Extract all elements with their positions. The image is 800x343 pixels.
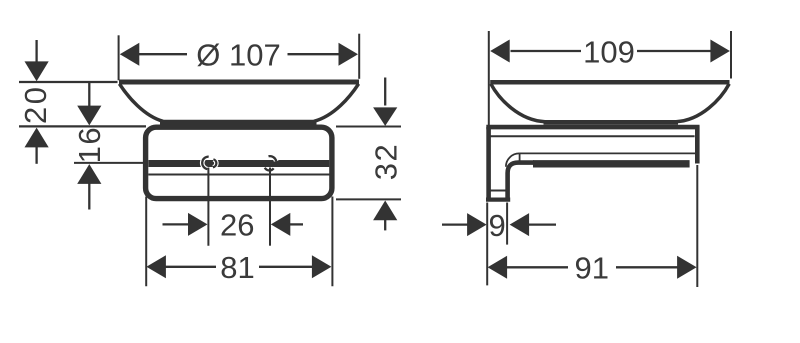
shelf plate bottom thin line	[490, 135, 695, 137]
dimension 20 bottom arrow	[25, 128, 49, 148]
svg-text:26: 26	[220, 208, 254, 243]
wall plate foot connector	[487, 190, 510, 192]
svg-text:81: 81	[220, 250, 254, 285]
dish bowl right curve	[676, 84, 729, 122]
dimension D107 extension line left	[118, 35, 120, 80]
holder inner thin line	[148, 174, 329, 176]
bracket edge line A (left)	[207, 168, 209, 246]
holder inner shelf thick bar	[149, 160, 330, 167]
dimension 109 extension line right	[730, 31, 732, 79]
break-arc symbol at node A	[202, 157, 216, 170]
svg-text:32: 32	[369, 143, 404, 180]
svg-text:109: 109	[583, 34, 635, 69]
holder body rounded rect	[146, 127, 332, 198]
svg-text:20: 20	[18, 85, 53, 124]
dimension 109 arrows and line	[490, 40, 510, 63]
bracket corner tick	[519, 153, 521, 160]
dish top rim line	[490, 80, 729, 85]
wall plate left edge	[486, 127, 491, 202]
dish top rim line	[119, 80, 359, 85]
dimension 32 reference line top	[336, 126, 401, 128]
dimension 9 extension line right	[506, 203, 508, 245]
dimension 16 bottom arrow	[77, 164, 101, 184]
dimension 81 extension line right	[331, 197, 333, 287]
dimension 32 bottom arrow	[373, 201, 397, 221]
dish bowl right curve	[314, 84, 359, 122]
dimension D107 extension line right	[358, 34, 360, 79]
dish bowl flat bottom	[160, 120, 317, 125]
shelf right edge	[695, 126, 700, 164]
dish bowl left curve	[491, 84, 545, 122]
dish bowl left curve	[119, 84, 163, 122]
bracket edge line B (right)	[269, 168, 271, 246]
dimension 9 extension line left	[486, 203, 488, 286]
bracket underside thin top line	[520, 152, 695, 154]
dimension D107 arrow right	[339, 43, 359, 66]
dimension 32 top arrow	[384, 78, 386, 106]
dimension 91 arrows and line	[488, 256, 508, 279]
dimension D107 line segments	[139, 53, 340, 55]
dimension 91 extension line right	[696, 165, 698, 287]
dimension 32 reference line bottom	[336, 198, 401, 200]
dimension 16 reference line (shelf)	[74, 162, 144, 164]
svg-text:16: 16	[72, 126, 107, 163]
dimension 20 top arrow	[35, 40, 37, 62]
bracket underside thick bar	[533, 160, 690, 167]
dimension 26 line and arrows	[163, 223, 190, 225]
dimension 81 extension line left	[145, 197, 147, 287]
break-arc symbol at node B	[265, 156, 276, 170]
dimension 109 extension line left	[488, 31, 490, 127]
dimension 20 reference line (dish top)	[19, 81, 118, 83]
svg-text:91: 91	[575, 251, 609, 286]
bracket outer fillet arc	[506, 153, 520, 166]
svg-text:9: 9	[488, 208, 505, 243]
svg-text:Ø 107: Ø 107	[196, 38, 280, 73]
shelf plate top line	[486, 125, 699, 130]
dimension D107 arrow left	[120, 43, 140, 66]
bracket inner vertical with fillet	[508, 163, 534, 202]
dimension 20 reference line (dish bottom)	[19, 125, 146, 127]
dimension 16 top arrow	[88, 83, 90, 107]
dish bowl flat bottom	[544, 120, 679, 125]
dimension 81 arrows and line	[146, 255, 166, 278]
dimension 9 arrows and line	[442, 223, 468, 225]
